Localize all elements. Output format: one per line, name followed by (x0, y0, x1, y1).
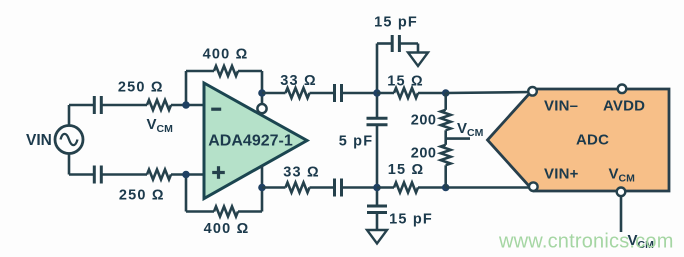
svg-text:ADA4927-1: ADA4927-1 (208, 133, 293, 150)
svg-text:ADC: ADC (576, 132, 609, 149)
svg-text:VIN: VIN (26, 132, 52, 149)
svg-text:33 Ω: 33 Ω (280, 73, 317, 89)
svg-text:AVDD: AVDD (603, 97, 645, 114)
svg-text:15 Ω: 15 Ω (388, 162, 425, 178)
svg-text:15 pF: 15 pF (374, 15, 418, 31)
svg-text:250 Ω: 250 Ω (119, 187, 165, 203)
svg-text:200: 200 (411, 146, 437, 162)
svg-text:33 Ω: 33 Ω (283, 165, 320, 181)
svg-text:400 Ω: 400 Ω (204, 221, 250, 237)
svg-text:250 Ω: 250 Ω (118, 80, 164, 96)
svg-text:15 pF: 15 pF (389, 212, 433, 228)
svg-text:www.cntronics.com: www.cntronics.com (498, 231, 674, 253)
svg-text:200: 200 (411, 113, 437, 129)
svg-text:VIN–: VIN– (544, 97, 578, 114)
svg-text:15 Ω: 15 Ω (387, 74, 424, 90)
svg-text:5 pF: 5 pF (339, 134, 374, 150)
svg-text:VIN+: VIN+ (544, 165, 579, 182)
svg-text:400 Ω: 400 Ω (203, 46, 249, 62)
